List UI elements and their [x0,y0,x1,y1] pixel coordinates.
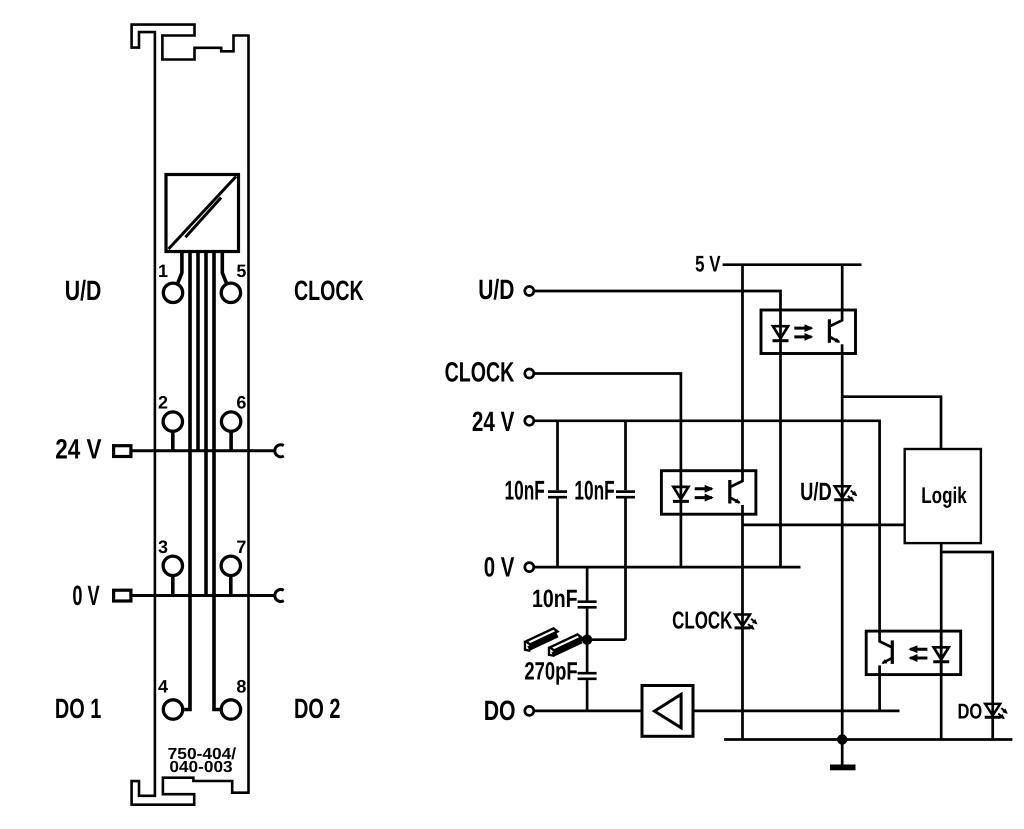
svg-text:0 V: 0 V [72,580,100,611]
bus connector box [166,175,239,252]
0V jumper contact arc [275,590,284,602]
ground symbol [830,765,856,771]
pad 4 [163,700,182,719]
wire cap C4 to DO line [586,680,589,711]
svg-text:DO 2: DO 2 [294,693,341,724]
wire CLOCK input [535,374,681,471]
wire to pad 5 [222,252,227,285]
box diagonal short [185,198,221,238]
wire U/D input [535,291,781,310]
wire U2 LED cathode to 0V [779,354,782,568]
capacitor C4 270pF plates [578,673,597,679]
terminal 0V [525,563,534,572]
wire Logik bottom through U3 LED to ground [940,543,943,739]
LED U/D indicator [834,486,856,500]
wire cap C3 upper [586,567,589,600]
pad 6 [221,412,240,431]
svg-text:DO 1: DO 1 [55,693,102,724]
svg-text:DO: DO [484,695,516,726]
24V jumper contact arc [275,445,284,457]
node junction DIN rail [582,635,592,645]
terminal U/D [525,287,534,296]
svg-text:U/D: U/D [800,478,832,506]
box diagonal long [169,177,237,250]
svg-text:24 V: 24 V [472,406,515,437]
wire cap C1 branch upper [556,421,559,491]
capacitor C3 10nF plates [578,602,597,608]
driver buffer box [642,686,693,737]
24V feed rail [133,449,275,452]
0V supply connector [114,590,131,601]
wire to pad 4 [184,252,190,710]
wire U1 emitter to Logik left [743,524,905,527]
driver triangle [655,694,682,727]
0V rail wire [535,566,801,569]
pad 5 [221,283,240,302]
stem pad2 [171,433,175,451]
svg-text:5 V: 5 V [695,251,720,277]
wire to 24V rail [196,252,200,451]
svg-text:CLOCK: CLOCK [445,357,515,388]
optocoupler U3 (DO channel, mirrored) [866,631,961,675]
svg-text:7: 7 [236,537,246,557]
wire junction to 0V via C2 column [587,638,625,641]
svg-text:10nF: 10nF [574,475,614,505]
svg-text:8: 8 [236,676,246,696]
svg-text:1: 1 [158,261,168,281]
svg-text:3: 3 [158,537,168,557]
terminal 24V [525,416,534,425]
wire 5V to opto U1 collector [741,265,744,471]
wire U1 LED cathode to 0V [680,515,683,567]
DIN rail symbol [525,628,587,655]
pad 2 [163,412,182,431]
optocoupler U1 (CLOCK channel) [661,471,756,515]
wire U3 emitter to DO line [878,675,881,711]
wire Logik bottom branch to DO LED rail [941,552,993,740]
wire driver output to U3 [693,710,900,713]
svg-text:040-003: 040-003 [169,759,232,776]
Logik block [905,449,981,543]
wire to ground symbol [841,740,844,765]
svg-text:U/D: U/D [65,275,102,306]
svg-text:5: 5 [236,261,246,281]
svg-text:CLOCK: CLOCK [294,275,364,306]
svg-text:4: 4 [158,676,168,696]
svg-text:CLOCK: CLOCK [672,608,733,635]
svg-text:6: 6 [236,393,246,413]
wire 24V input to opto U3 [535,421,880,631]
svg-text:2: 2 [158,393,168,413]
svg-text:Logik: Logik [921,482,967,508]
pad 1 [163,283,182,302]
wire to 0V rail [204,252,208,596]
pad 3 [163,556,182,575]
svg-text:10nF: 10nF [505,475,545,505]
stem pad7 [229,577,233,596]
stem pad6 [229,433,233,451]
svg-text:24 V: 24 V [55,434,102,465]
node ground junction [837,734,847,744]
svg-text:270pF: 270pF [524,657,577,685]
0V feed rail [133,594,275,597]
ground bus [724,738,1012,741]
optocoupler U2 (U/D channel) [761,310,856,354]
wire cap C2 branch upper [624,421,627,491]
stem pad3 [171,577,175,596]
pad 8 [221,700,240,719]
svg-text:U/D: U/D [478,274,514,305]
module housing outline [132,25,249,805]
terminal CLOCK [525,369,534,378]
wire DO input to driver [535,710,642,713]
wire U1 emitter down to ground bus [741,515,744,739]
pad 7 [221,556,240,575]
24V supply connector [114,446,131,457]
wire cap C1 branch lower [556,499,559,568]
5V rail [723,263,862,266]
capacitor C1 10nF plates [548,492,567,498]
svg-text:0 V: 0 V [484,552,515,583]
wire 5V to opto U2 collector [841,265,844,310]
wire cap C3 to junction [586,609,589,672]
LED DO indicator [985,704,1007,718]
wire U2 emitter down to ground bus [841,354,844,740]
terminal DO [525,706,534,715]
wire cap C2 branch lower [624,499,627,640]
svg-text:10nF: 10nF [532,585,578,613]
LED CLOCK indicator [735,615,757,629]
svg-text:DO: DO [958,699,983,723]
wire U2 emitter to Logik top [842,397,941,449]
wire to pad 1 [177,252,182,285]
wire to pad 8 [214,252,220,710]
capacitor C2 10nF plates [616,492,635,498]
